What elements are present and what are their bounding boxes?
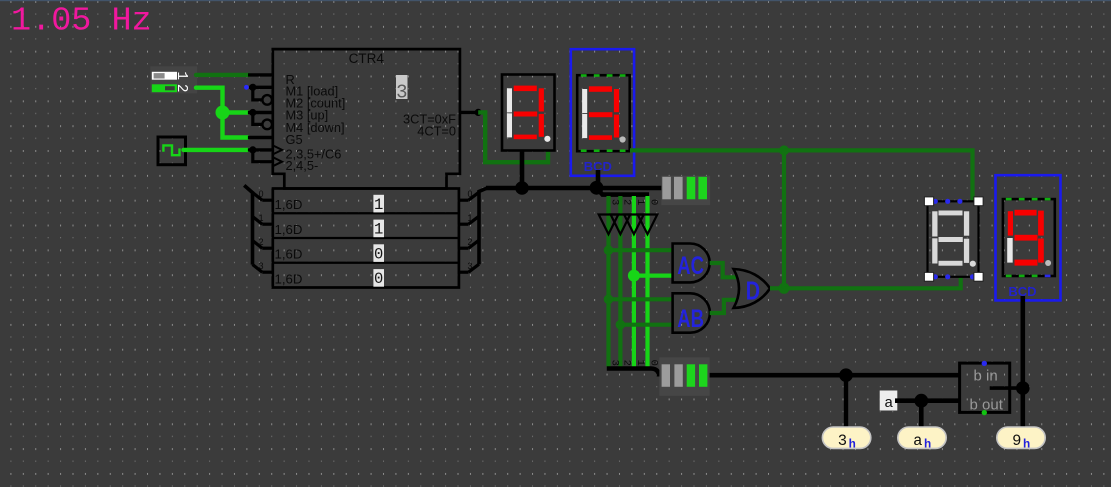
svg-text:1,6D: 1,6D [275,247,303,262]
clock component [158,137,186,165]
svg-text:0: 0 [647,199,659,205]
inversion bubble M4 [262,120,272,130]
node M3 [249,109,256,116]
wire: AB output to OR D (low) [710,300,736,313]
svg-text:b in: b in [974,368,998,385]
wire: net D vertical (low) [782,150,786,288]
svg-text:h: h [1023,438,1030,452]
node bit2 tap [616,320,626,330]
seven-segment display DS1 (showing 3) [502,75,555,151]
subcircuit BCD U3 seven-segment (showing 9) [1003,199,1055,276]
svg-text:1: 1 [173,71,189,80]
wire: G5 pin stub [248,136,273,139]
switch 2 (on) [152,84,177,92]
wire: splitter bit 1 vertical [632,196,636,367]
BCD U2 pin marks top [581,74,626,77]
subcircuit b bottom pin (green) [982,410,987,415]
wire: DS1 output to bus [520,151,525,188]
BCD U2 pin marks bottom [581,149,626,152]
AND gate AC [673,244,710,283]
svg-text:1: 1 [634,199,646,205]
svg-text:3: 3 [468,261,473,271]
bus junction ah [914,394,928,408]
svg-text:0: 0 [259,189,264,199]
svg-text:4CT=0: 4CT=0 [417,124,456,139]
wire: clock to C6 (high) [184,148,248,152]
svg-text:2: 2 [620,199,632,205]
node bit3 tap 1 [604,245,614,255]
wire: bit3 to AND AB input 1 (low) [609,297,673,301]
wire: OR D output (low) [770,286,784,290]
subcircuit BCD U3 frame [996,175,1061,300]
wire: hook C6 to 2,4,5- [253,150,273,162]
svg-text:2: 2 [468,237,473,247]
DS2 unconnected pins (blue) bottom [933,274,975,279]
window top edge line [0,0,1111,1]
svg-text:CTR4: CTR4 [349,51,385,66]
seven-segment display DS2 (selected, blank) [928,201,979,276]
svg-text:3: 3 [608,360,620,366]
svg-text:1: 1 [259,213,264,223]
svg-text:D: D [746,276,760,305]
wire: splitter bit 3 vertical [606,196,610,367]
node bit3 tap 2 [604,295,614,305]
register row separator [273,212,459,214]
bus junction 9h [1016,381,1030,395]
wire: register left pin 2 stub [262,247,273,250]
wire: net D to DS2 bottom (low) [784,277,961,289]
node C6 [249,146,256,153]
wire: register right pin 3 stub [459,271,469,274]
svg-text:h: h [924,438,931,452]
wire: bit3 to AND AC input 1 (low) [609,248,673,252]
fanout triangle 2 [624,215,644,235]
node counter output [475,109,482,116]
register box [273,189,459,288]
wire: hook M3 to M4 bubble [253,113,262,125]
svg-text:h: h [849,438,856,452]
svg-text:1,6D: 1,6D [275,222,303,237]
node bit1 tap [628,270,640,282]
junction on switch2 net [216,106,230,120]
BCD U3 pin marks bottom [1006,275,1051,278]
svg-text:2: 2 [620,360,632,366]
svg-text:3: 3 [396,82,407,104]
bus junction BCD U2 [590,181,604,195]
probe bars P1 background [661,176,710,205]
wire: register right pin 2 stub [459,247,469,250]
svg-text:2,4,5-: 2,4,5- [286,158,319,173]
bus junction DS1 [515,181,529,195]
inversion bubble M2 [262,95,272,105]
svg-text:a: a [913,432,922,450]
clock edge marker pin 2,4,5- [273,157,282,166]
svg-text:0: 0 [374,245,383,263]
svg-text:G5: G5 [286,132,303,147]
probe bars P2 (value 0011) [662,364,708,387]
bus wire main horizontal [486,186,662,191]
node M1 [249,84,256,91]
svg-text:3: 3 [259,261,264,271]
wire: to probe 3h [844,375,848,427]
wire: bit1 to AND AC input 2 (high) [634,274,673,278]
wire: register left pin 0 fanout diagonal [253,193,263,201]
svg-text:3: 3 [838,432,847,450]
counter value box 3 [396,75,408,104]
subcircuit b (b in / b out) [960,363,1010,413]
svg-text:0: 0 [468,189,473,199]
svg-text:b out: b out [970,396,1004,413]
probe bars P1 (value 0011) [662,177,707,200]
probe bars P2 background [659,357,709,396]
fanout triangle 0 [599,215,619,235]
wire: net D to DS2 top (low) [784,150,973,201]
wire: BCD U2 pin to bus [596,170,601,188]
wire: register right pin 3 fanout diagonal [469,264,480,272]
wire: to probe ah [919,401,924,428]
register value box 1 [373,195,384,214]
wire: R pin stub [248,73,273,76]
wire: BCD U2 to net D horizontal (low) [630,148,784,152]
wire: register left pin 1 fanout diagonal [253,217,263,225]
svg-text:1,6D: 1,6D [275,197,303,212]
bus wire right of register [479,188,488,265]
DS2 selection handles [924,197,983,281]
svg-text:1: 1 [374,221,383,239]
svg-text:AC: AC [677,251,704,279]
register value box 0 [373,244,384,263]
wire: M3 pin stub [248,111,273,114]
svg-text:a: a [884,395,893,412]
wire: switch1 to R (low) [196,73,249,77]
probe 3h [822,427,870,452]
svg-text:1: 1 [634,360,646,366]
unconnected pin dot (blue) [244,85,249,90]
wire: register right pin 2 fanout diagonal [469,240,480,248]
svg-text:2: 2 [259,237,264,247]
bus wire left of register [244,185,252,264]
wire: register right pin 1 fanout diagonal [469,216,480,224]
wire: switch2 high net [196,88,248,138]
splitter S2 bar (bottom) [607,369,659,377]
wire: register right pin 0 fanout diagonal [469,192,480,200]
wire: AC output to OR D (low) [710,263,736,277]
wire: register right pin 0 stub [459,199,469,202]
wire: output to display dp (low) [478,112,548,162]
bus wire bottom horizontal [710,373,960,378]
wire: M1 pin stub [249,86,273,89]
wire: counter output stub [460,111,478,114]
clock edge marker pin 2,3,5+/C6 [273,145,282,154]
svg-text:9: 9 [1012,432,1021,450]
subcircuit BCD U2 seven-segment (showing 3) [577,75,630,151]
wire: b in pin to net 9 [990,386,1023,390]
svg-text:2: 2 [173,84,189,93]
register value box 1 [373,220,384,239]
DS2 unconnected pins (blue) top [933,199,963,204]
wire: bit2 to AND AB input 2 (low) [620,323,672,327]
wire: register right pin 1 stub [459,223,469,226]
tunnel label a [880,391,898,413]
svg-text:0: 0 [374,270,383,288]
wire: C6 pin stub [248,148,273,151]
subcircuit BCD U2 selection frame [571,49,634,176]
svg-text:1,6D: 1,6D [275,271,303,286]
splitter S1 bar [598,189,650,195]
input switches highlight background [150,66,197,93]
subcircuit b top pin (blue) [982,361,987,366]
probe ah [898,427,946,452]
bus junction 3h [839,368,853,382]
probe 9h [997,427,1045,452]
AND gate AB [673,293,710,332]
register value box 0 [373,269,384,288]
wire: register left pin 0 stub [262,199,273,202]
switch 1 (off) [152,72,177,80]
wire: hook M1 to M2 bubble [253,87,262,100]
svg-text:1: 1 [468,213,473,223]
BCD U3 pin marks top [1006,198,1051,201]
wire: register left pin 3 fanout diagonal [253,265,263,273]
wire: splitter bit 0 vertical [645,196,649,367]
wire: BCD U3 output down to probe 9h [1020,296,1025,428]
register row separator [273,237,459,239]
svg-text:3: 3 [608,199,620,205]
wire: register left pin 1 stub [262,223,273,226]
OR gate D [734,269,771,308]
svg-text:0: 0 [647,360,659,366]
wire: register left pin 2 fanout diagonal [253,241,263,249]
fanout triangle 1 [611,215,631,235]
wire: tunnel a to b out [895,398,960,403]
svg-text:AB: AB [677,304,704,332]
register row separator [273,262,459,264]
wire: register left pin 3 stub [262,271,273,274]
node net D top [779,145,789,155]
fanout triangle 3 [638,215,658,235]
node OR output [779,283,790,294]
wire: splitter bit 2 vertical [618,196,622,367]
counter U1 CTR4 body [273,49,460,188]
svg-text:1: 1 [374,196,383,214]
svg-text:1.05 Hz: 1.05 Hz [11,3,152,41]
